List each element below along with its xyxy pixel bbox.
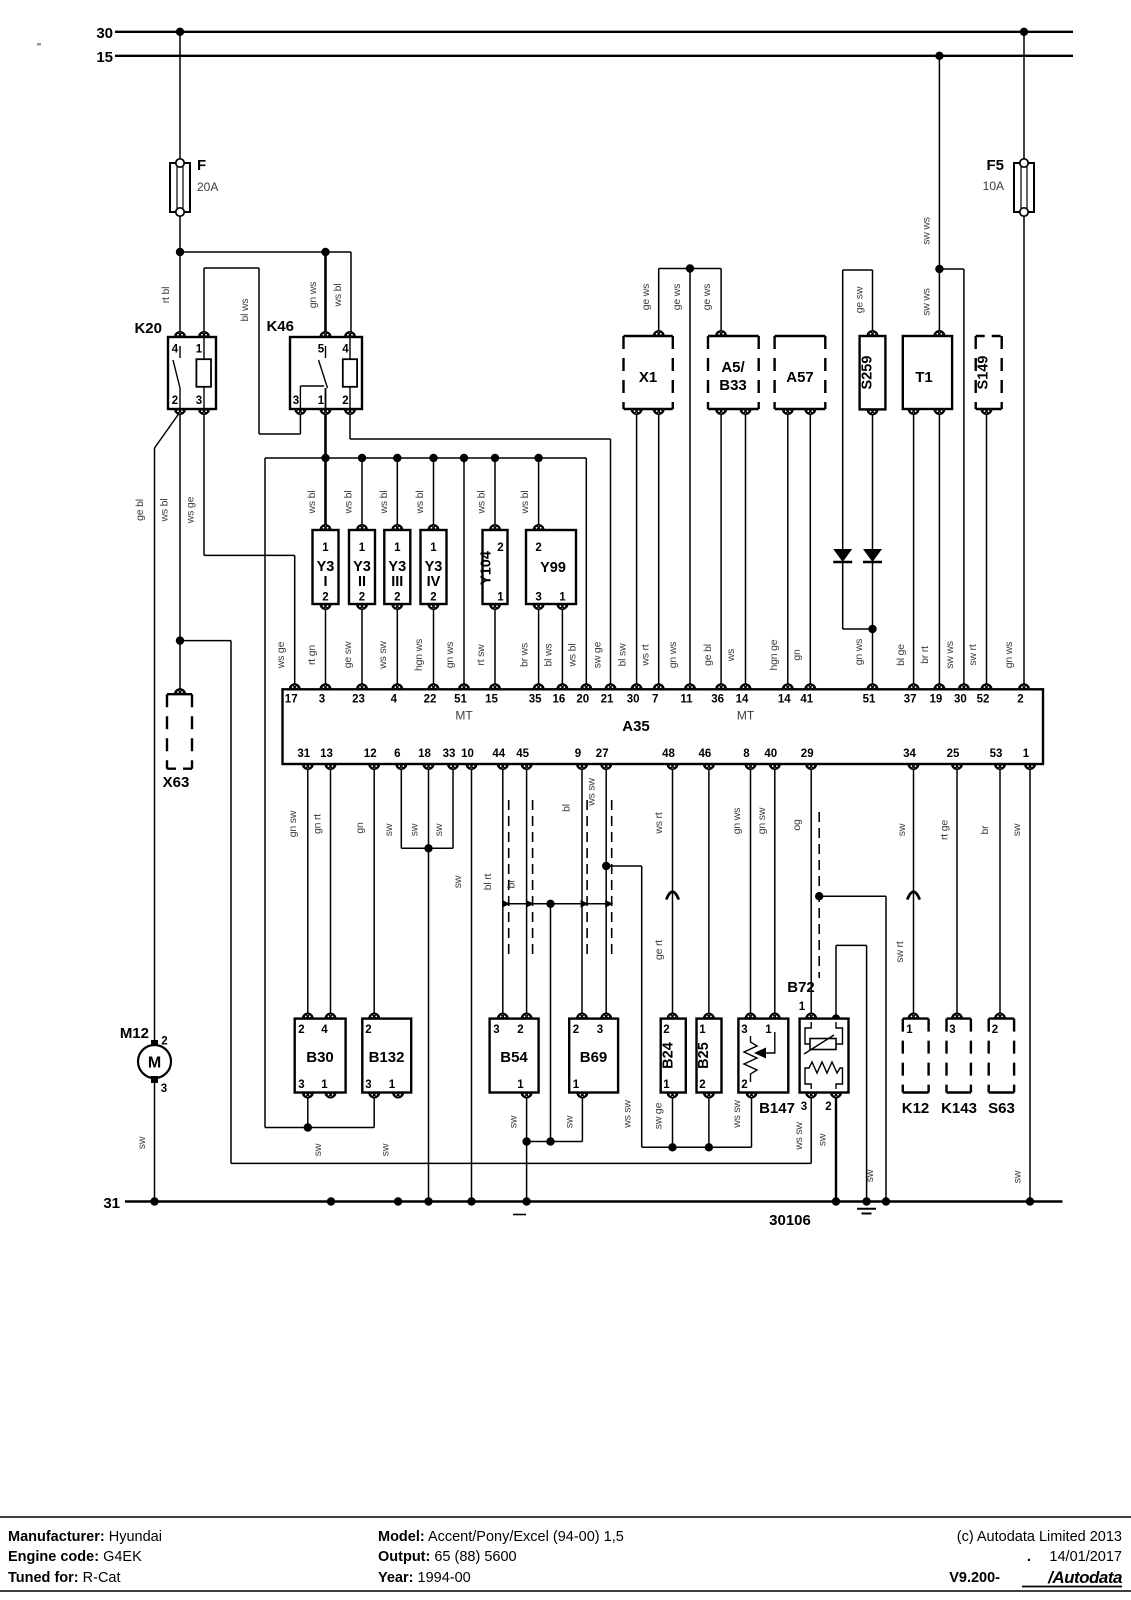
wire bl sw X1 to pin 30	[636, 409, 638, 689]
svg-text:40: 40	[764, 748, 777, 760]
svg-text:4: 4	[172, 344, 179, 356]
wire rt ge pin25 to K143.3	[956, 764, 958, 1019]
svg-text:41: 41	[800, 694, 813, 706]
switch S259	[860, 336, 886, 409]
svg-text:gn ws: gn ws	[1003, 642, 1015, 668]
svg-text:sw: sw	[433, 823, 445, 836]
svg-text:1: 1	[497, 592, 504, 604]
svg-text:13: 13	[320, 748, 333, 760]
svg-text:2: 2	[699, 1079, 705, 1091]
svg-text:A57: A57	[786, 369, 814, 386]
wire sw/sw rt pin34 to K12.1	[913, 764, 915, 1019]
svg-text:sw ws: sw ws	[921, 288, 933, 316]
sensor B147	[738, 1019, 788, 1093]
wire shield bus	[509, 903, 612, 905]
svg-text:51: 51	[454, 694, 467, 706]
svg-text:ws ge: ws ge	[275, 641, 287, 669]
wire hgn ge A57 to pin 14	[787, 409, 789, 689]
svg-text:gn sw: gn sw	[287, 810, 299, 837]
svg-text:ws bl: ws bl	[343, 491, 355, 515]
shield dashed lines B69	[586, 800, 588, 955]
svg-text:/Autodata: /Autodata	[1047, 1568, 1122, 1587]
svg-text:ge ws: ge ws	[701, 284, 713, 310]
svg-text:Y3: Y3	[425, 559, 443, 575]
wire sw B54.1 to bus31	[526, 1093, 528, 1202]
wire ws bl to solenoid	[396, 458, 398, 530]
svg-text:ws bl: ws bl	[414, 491, 426, 515]
svg-text:ge sw: ge sw	[342, 641, 354, 668]
svg-text:20: 20	[576, 694, 589, 706]
wire ground branch from pin27 wire	[606, 865, 642, 867]
solenoid valve Y104	[483, 530, 508, 604]
svg-text:X1: X1	[639, 369, 657, 386]
svg-text:IV: IV	[427, 574, 441, 590]
svg-text:Year: 1994-00: Year: 1994-00	[378, 1570, 471, 1586]
svg-text:10: 10	[461, 748, 474, 760]
wire rt gn Y3I.2 to pin 3	[325, 604, 327, 689]
svg-text:B147: B147	[759, 1100, 795, 1117]
svg-text:ge bl: ge bl	[134, 499, 146, 521]
svg-text:2: 2	[663, 1024, 669, 1036]
wire ge ws to A35 pin 11	[689, 269, 691, 690]
wire sw to bus31	[866, 945, 868, 1201]
svg-text:gn: gn	[791, 649, 803, 661]
wire K46.1 to Y3I.1 thick	[324, 409, 327, 530]
svg-text:M12: M12	[120, 1025, 149, 1042]
svg-text:31: 31	[103, 1195, 120, 1212]
wire ws bl to K46 pin 4	[350, 252, 352, 337]
wire bl rt pin44 to B54.3	[502, 764, 504, 1019]
wire ws bl K20.2 to X63	[179, 409, 181, 692]
svg-text:gn rt: gn rt	[312, 814, 324, 834]
svg-text:20A: 20A	[197, 180, 218, 194]
svg-text:S149: S149	[976, 356, 992, 390]
svg-text:K12: K12	[902, 1100, 930, 1117]
wire bus 31	[125, 1200, 1063, 1202]
svg-text:2: 2	[992, 1024, 998, 1036]
svg-text:(c) Autodata Limited 2013: (c) Autodata Limited 2013	[957, 1529, 1122, 1545]
svg-text:22: 22	[424, 694, 437, 706]
svg-text:B30: B30	[306, 1049, 334, 1066]
svg-text:bl: bl	[561, 804, 573, 812]
solenoid valve Y3 III	[384, 530, 410, 604]
svg-text:19: 19	[930, 694, 943, 706]
svg-text:3: 3	[597, 1024, 603, 1036]
svg-text:29: 29	[801, 748, 814, 760]
svg-text:A35: A35	[622, 718, 650, 735]
wire ws rt X1 to pin 7	[658, 409, 660, 689]
wire ws bl to solenoid	[538, 458, 540, 530]
sensor B24	[661, 1019, 686, 1093]
svg-text:ws sw: ws sw	[622, 1100, 634, 1129]
wire bus 15	[115, 55, 1073, 57]
svg-text:45: 45	[516, 748, 529, 760]
svg-text:K20: K20	[134, 320, 162, 337]
svg-text:sw: sw	[312, 1143, 324, 1156]
svg-text:11: 11	[680, 694, 693, 706]
wire B72 top pin ground	[835, 945, 837, 1018]
svg-text:br ws: br ws	[519, 643, 531, 667]
svg-text:4: 4	[321, 1024, 328, 1036]
wire B132.3 stub	[373, 1093, 375, 1128]
wire gn rt pin13 to B30.4	[330, 764, 332, 1019]
svg-text:bl ws: bl ws	[543, 644, 555, 667]
wire hgn ws Y3IV.2 to pin 22	[433, 604, 435, 689]
svg-text:Y99: Y99	[540, 560, 566, 576]
wire sw pin1 to bus31	[1029, 764, 1031, 1202]
wire ws A5/B33 to pin 14	[745, 409, 747, 689]
svg-text:30: 30	[954, 694, 967, 706]
wire Y bus left leg down	[264, 458, 266, 1128]
svg-text:gn sw: gn sw	[756, 807, 768, 834]
module A5/B33	[708, 335, 759, 337]
svg-text:2: 2	[825, 1101, 831, 1113]
switch S149	[976, 335, 1002, 337]
svg-text:B25: B25	[696, 1042, 712, 1069]
svg-text:ws bl: ws bl	[519, 491, 531, 515]
svg-text:ws bl: ws bl	[159, 499, 171, 523]
svg-text:sw: sw	[409, 823, 421, 836]
wire sw B69.1 down	[581, 1093, 583, 1142]
svg-text:3: 3	[298, 1079, 304, 1091]
svg-text:Model: Accent/Pony/Excel (94-0: Model: Accent/Pony/Excel (94-00) 1,5	[378, 1529, 624, 1545]
wire ge ws X1 to A5/B33	[658, 269, 660, 337]
svg-text:sw: sw	[896, 823, 908, 836]
svg-text:1: 1	[430, 542, 437, 554]
svg-text:35: 35	[529, 694, 542, 706]
svg-text:S63: S63	[988, 1100, 1015, 1117]
svg-text:sw ge: sw ge	[592, 641, 604, 668]
svg-text:sw: sw	[1011, 823, 1023, 836]
wire bl ge T1 to pin 37	[913, 409, 915, 689]
wire ws sw down	[641, 866, 643, 1147]
connector X63	[167, 693, 192, 695]
svg-text:1: 1	[318, 395, 325, 407]
svg-text:2: 2	[517, 1024, 523, 1036]
wire horizontal feed to K20/K46	[180, 251, 351, 253]
svg-text:sw ws: sw ws	[944, 641, 956, 669]
wire branch sw ws	[939, 268, 964, 270]
svg-text:ge ws: ge ws	[671, 284, 683, 310]
wire ws sw pin27 to B69.3	[605, 764, 607, 1019]
svg-text:4: 4	[342, 344, 349, 356]
svg-text:rt bl: rt bl	[160, 287, 172, 304]
svg-text:1: 1	[322, 542, 329, 554]
svg-text:1: 1	[359, 542, 366, 554]
wire join B54.1/B69.1	[527, 1141, 583, 1143]
svg-text:og: og	[791, 819, 803, 831]
svg-text:3: 3	[949, 1024, 955, 1036]
footer rules	[0, 1516, 1131, 1518]
wire gn ws F5 to A35 pin 2	[1023, 212, 1025, 689]
svg-text:gn ws: gn ws	[444, 642, 456, 668]
svg-text:B54: B54	[500, 1049, 528, 1066]
wire B25.2	[708, 1093, 710, 1148]
svg-text:3: 3	[293, 395, 299, 407]
svg-text:1: 1	[196, 344, 203, 356]
solenoid valve Y99	[526, 530, 576, 604]
svg-text:sw ge: sw ge	[653, 1102, 665, 1129]
svg-text:B69: B69	[580, 1049, 608, 1066]
svg-text:ge rt: ge rt	[653, 940, 665, 960]
svg-text:sw: sw	[1012, 1170, 1024, 1183]
svg-text:36: 36	[711, 694, 724, 706]
svg-text:rt sw: rt sw	[475, 644, 487, 666]
wire bus30 to fuse F	[179, 32, 181, 163]
svg-text:3: 3	[196, 395, 202, 407]
svg-text:9: 9	[575, 748, 581, 760]
svg-text:F: F	[197, 157, 206, 174]
svg-text:F5: F5	[986, 157, 1004, 174]
wire gn sw pin40 to B147.1	[774, 764, 776, 1019]
svg-text:ws bl: ws bl	[567, 644, 579, 668]
svg-text:30: 30	[627, 694, 640, 706]
svg-text:ge bl: ge bl	[702, 644, 714, 666]
wire ge bl A5/B33 to pin 36	[720, 409, 722, 689]
svg-text:17: 17	[285, 694, 298, 706]
svg-text:3: 3	[319, 694, 325, 706]
ground 30106	[857, 1208, 876, 1210]
fuse F5 10A	[1023, 163, 1025, 212]
svg-text:2: 2	[573, 1024, 579, 1036]
svg-text:25: 25	[947, 748, 960, 760]
wire to B30.3 B132.3	[265, 1127, 374, 1129]
svg-text:34: 34	[903, 748, 916, 760]
svg-text:1: 1	[699, 1024, 706, 1036]
wire sw ws bus15 to T1	[938, 56, 940, 336]
ECU A35	[283, 689, 1044, 764]
sensor B72	[800, 1019, 849, 1093]
diode right	[863, 549, 882, 562]
wire ws bl to solenoid	[494, 458, 496, 530]
svg-text:3: 3	[801, 1101, 807, 1113]
svg-text:30106: 30106	[769, 1212, 811, 1229]
wire Y solenoid bus	[265, 457, 586, 459]
wire ge sw Y3II.2 to pin 23	[361, 604, 363, 689]
wire gn sw pin31 to B30.2	[307, 764, 309, 1019]
module A57	[775, 335, 826, 337]
svg-text:4: 4	[391, 694, 398, 706]
svg-text:bl sw: bl sw	[617, 643, 629, 667]
wire bl ws K20.1 to K46.3	[203, 268, 205, 337]
wire sw pin33 down	[452, 764, 454, 848]
sensor B54	[490, 1019, 539, 1093]
svg-text:2: 2	[322, 592, 328, 604]
svg-text:3: 3	[365, 1079, 371, 1091]
svg-text:2: 2	[1017, 694, 1023, 706]
svg-text:1: 1	[517, 1079, 524, 1091]
wire gn ws to A35 pin 51 MT	[463, 458, 465, 689]
svg-text:2: 2	[359, 592, 365, 604]
svg-text:K143: K143	[941, 1100, 977, 1117]
svg-text:48: 48	[662, 748, 675, 760]
svg-text:1: 1	[389, 1079, 396, 1091]
wire og shield drain	[819, 895, 886, 897]
svg-text:16: 16	[553, 694, 566, 706]
svg-text:2: 2	[342, 395, 348, 407]
wire branch to ground net	[180, 640, 231, 642]
wire og shield to bus31	[885, 896, 887, 1201]
svg-text:37: 37	[904, 694, 917, 706]
svg-text:18: 18	[418, 748, 431, 760]
svg-text:14: 14	[778, 694, 791, 706]
inline connector on B24 wire	[667, 892, 679, 899]
wire ge sw S259 top loop	[872, 270, 874, 336]
svg-text:ws: ws	[725, 649, 737, 662]
svg-text:Engine code: G4EK: Engine code: G4EK	[8, 1549, 142, 1565]
wire sw pin18 to bus31	[428, 764, 430, 1202]
svg-text:sw ws: sw ws	[921, 217, 933, 245]
svg-text:ge ws: ge ws	[640, 284, 652, 310]
relay S63	[989, 1017, 1014, 1019]
svg-text:V9.200-: V9.200-	[949, 1570, 1000, 1586]
svg-text:B33: B33	[719, 377, 747, 394]
svg-text:gn ws: gn ws	[667, 642, 679, 668]
svg-text:53: 53	[990, 748, 1003, 760]
solenoid valve Y3 IV	[421, 530, 447, 604]
svg-text:sw rt: sw rt	[894, 941, 906, 962]
wire sw M12.3 to bus 31	[154, 1080, 156, 1202]
relay K143	[947, 1017, 971, 1019]
wire ws bl to solenoid	[361, 458, 363, 530]
svg-text:2: 2	[161, 1036, 167, 1048]
wire sw ge K46.2 to A35 pin 21	[349, 409, 351, 439]
svg-text:Manufacturer: Hyundai: Manufacturer: Hyundai	[8, 1529, 162, 1545]
wire B30.3 stub	[307, 1093, 309, 1128]
svg-text:10A: 10A	[983, 179, 1004, 193]
svg-text:sw: sw	[136, 1136, 148, 1149]
wire gn ws to K46 pin 5	[324, 252, 327, 337]
svg-text:B72: B72	[787, 979, 815, 996]
svg-text:sw: sw	[563, 1115, 575, 1128]
svg-text:ws ge: ws ge	[185, 496, 197, 524]
svg-text:6: 6	[394, 748, 400, 760]
svg-text:sw rt: sw rt	[967, 644, 979, 665]
wire bl ws Y99.1 to pin 16	[561, 604, 563, 689]
svg-text:hgn ws: hgn ws	[413, 639, 425, 671]
svg-text:2: 2	[298, 1024, 304, 1036]
svg-text:15: 15	[96, 49, 113, 66]
motor M12	[151, 1040, 158, 1047]
svg-text:gn ws: gn ws	[307, 282, 319, 308]
svg-text:bl ge: bl ge	[895, 644, 907, 666]
svg-text:B24: B24	[660, 1042, 676, 1069]
wire ws ge K20.3 to A35 pin 17	[203, 409, 205, 555]
svg-text:sw: sw	[817, 1133, 829, 1146]
svg-text:2: 2	[172, 395, 178, 407]
svg-text:MT: MT	[455, 709, 473, 723]
wire join B24/B25/B147 grounds	[642, 1146, 752, 1148]
svg-text:3: 3	[535, 592, 541, 604]
connector X1	[624, 335, 673, 337]
svg-text:2: 2	[394, 592, 400, 604]
wire S259 bottom to diode	[872, 409, 874, 549]
svg-text:2: 2	[497, 542, 503, 554]
svg-text:bl rt: bl rt	[482, 873, 494, 890]
svg-text:52: 52	[977, 694, 990, 706]
svg-text:2: 2	[535, 542, 541, 554]
diode left	[833, 549, 852, 562]
svg-text:8: 8	[743, 748, 750, 760]
svg-text:II: II	[358, 574, 366, 590]
svg-text:br: br	[506, 879, 518, 889]
wire shield drain	[550, 904, 552, 1142]
relay K46	[290, 337, 362, 409]
svg-text:ws bl: ws bl	[306, 491, 318, 515]
svg-text:br rt: br rt	[919, 646, 931, 664]
svg-text:br: br	[979, 825, 991, 835]
svg-text:2: 2	[430, 592, 436, 604]
wire gn pin12 to B132.2	[373, 764, 375, 1019]
svg-text:M: M	[148, 1055, 161, 1072]
svg-text:.: .	[1027, 1548, 1031, 1565]
ground mark left	[513, 1214, 526, 1216]
svg-text:1: 1	[663, 1079, 670, 1091]
svg-text:S259: S259	[860, 356, 876, 390]
shield connection arrows	[502, 900, 510, 908]
wire sw ge B24.1	[672, 1093, 674, 1148]
svg-text:ws sw: ws sw	[793, 1122, 805, 1151]
svg-text:12: 12	[364, 748, 377, 760]
svg-text:ws sw: ws sw	[731, 1100, 743, 1129]
svg-text:30: 30	[96, 25, 113, 42]
svg-text:1: 1	[906, 1024, 913, 1036]
wire rt bl to K20 pin 4	[179, 252, 181, 337]
svg-text:ge sw: ge sw	[854, 286, 866, 313]
svg-text:21: 21	[601, 694, 614, 706]
svg-text:1: 1	[765, 1024, 772, 1036]
svg-text:rt ge: rt ge	[939, 820, 951, 840]
svg-text:46: 46	[699, 748, 712, 760]
svg-text:1: 1	[321, 1079, 328, 1091]
solenoid valve Y3 I	[313, 530, 339, 604]
svg-text:1: 1	[799, 1001, 806, 1013]
wire og pin29 to B72.1	[810, 764, 812, 1019]
solenoid valve Y3 II	[349, 530, 375, 604]
svg-text:sw: sw	[383, 823, 395, 836]
wire ws rt/ge rt pin48 to B24.2	[672, 764, 674, 1019]
svg-text:hgn ge: hgn ge	[768, 639, 780, 670]
wire sw rt S149 to pin 52	[986, 409, 988, 689]
relay K12	[903, 1017, 929, 1019]
wire bus30 to fuse F5	[1023, 32, 1025, 163]
svg-text:15: 15	[485, 694, 498, 706]
sensor B69	[569, 1019, 618, 1093]
svg-text:14/01/2017: 14/01/2017	[1049, 1549, 1122, 1565]
svg-text:5: 5	[318, 344, 325, 356]
svg-text:K46: K46	[266, 318, 294, 335]
svg-text:33: 33	[443, 748, 456, 760]
svg-text:A5/: A5/	[721, 359, 745, 376]
wire ws bl to solenoid	[433, 458, 435, 530]
wire ws bl to A35 pin 20	[585, 458, 587, 689]
svg-text:Y3: Y3	[388, 559, 406, 575]
wire bus 30	[115, 31, 1073, 33]
svg-text:X63: X63	[163, 774, 190, 791]
svg-text:Tuned for: R-Cat: Tuned for: R-Cat	[8, 1570, 121, 1586]
svg-text:I: I	[323, 574, 327, 590]
svg-text:3: 3	[161, 1083, 167, 1095]
wire sw B72.2 to bus31	[835, 1093, 837, 1202]
svg-text:44: 44	[492, 748, 505, 760]
svg-text:7: 7	[652, 694, 658, 706]
svg-text:rt gn: rt gn	[306, 645, 318, 665]
wire sw ws to A35 pin 30	[963, 269, 965, 689]
wire fuse F down	[179, 212, 181, 252]
wire gn ws to A35 pin 51	[872, 562, 874, 689]
svg-text:Y104: Y104	[479, 551, 495, 585]
svg-text:MT: MT	[737, 709, 755, 723]
